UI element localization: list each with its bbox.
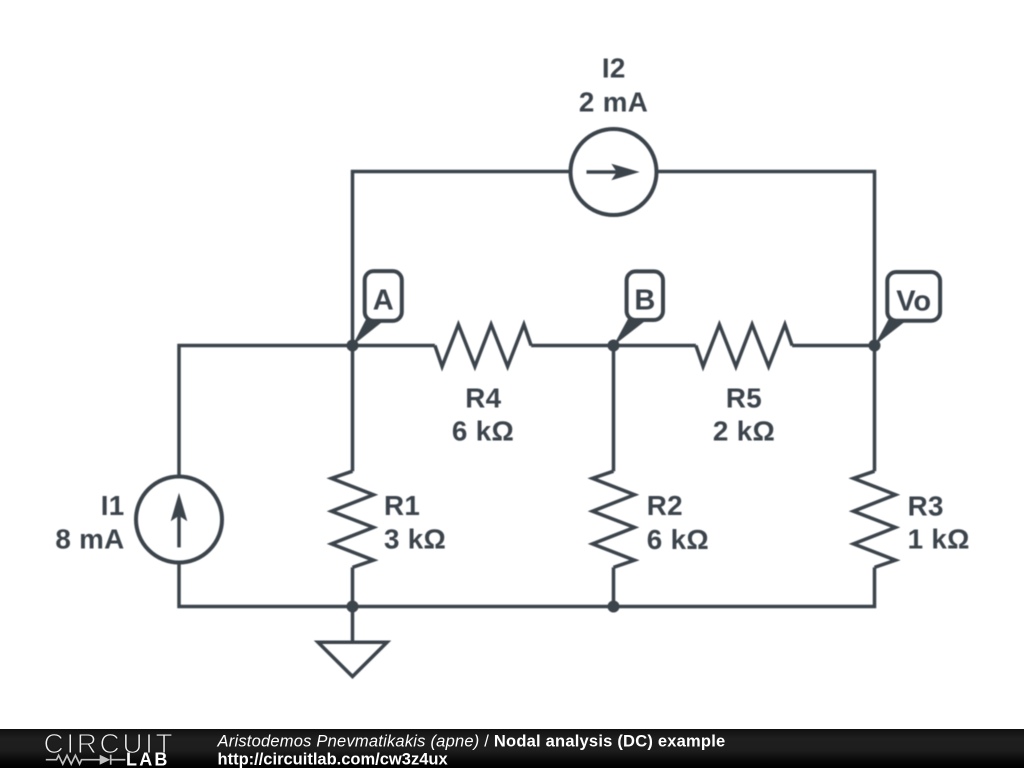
svg-text:R5: R5 (726, 383, 762, 414)
svg-text:I2: I2 (602, 53, 626, 84)
svg-text:6 kΩ: 6 kΩ (647, 524, 709, 555)
svg-text:6 kΩ: 6 kΩ (452, 416, 514, 447)
svg-text:2 kΩ: 2 kΩ (713, 416, 775, 447)
svg-text:Aristodemos Pnevmatikakis (apn: Aristodemos Pnevmatikakis (apne) / Nodal… (217, 733, 726, 751)
svg-text:2 mA: 2 mA (579, 87, 648, 118)
svg-text:R2: R2 (647, 490, 683, 521)
svg-text:B: B (634, 285, 655, 317)
svg-text:8 mA: 8 mA (55, 524, 124, 555)
svg-text:LAB: LAB (126, 750, 170, 768)
svg-text:R4: R4 (465, 383, 501, 414)
svg-text:http://circuitlab.com/cw3z4ux: http://circuitlab.com/cw3z4ux (218, 751, 449, 768)
svg-text:R1: R1 (384, 490, 420, 521)
svg-text:Vo: Vo (896, 285, 931, 317)
svg-text:I1: I1 (101, 490, 125, 521)
svg-text:A: A (373, 285, 394, 317)
svg-text:1 kΩ: 1 kΩ (908, 524, 970, 555)
svg-text:3 kΩ: 3 kΩ (384, 524, 446, 555)
svg-text:R3: R3 (908, 491, 944, 522)
